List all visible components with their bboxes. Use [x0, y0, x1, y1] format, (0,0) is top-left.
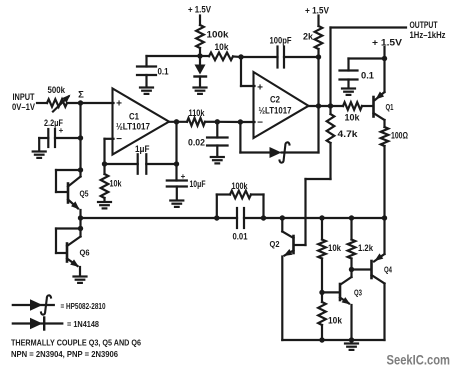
- node C1 output: [174, 119, 179, 124]
- ground (0.1 Q1): [342, 89, 355, 95]
- node 2.2uF tap: [78, 135, 83, 140]
- op-amp C2 1/2 LT1017: [254, 72, 309, 138]
- +1.5V supply label (2k): [305, 6, 329, 16]
- resistor 4.7k: [327, 106, 359, 179]
- transistor Q1 (PNP 2N3906): [374, 59, 394, 121]
- node C2 - input: [238, 119, 243, 124]
- transistor Q2 (NPN 2N3904): [270, 218, 294, 340]
- wire 100k to node: [199, 48, 201, 56]
- node rail/100ohm/Q4: [382, 215, 387, 220]
- transistor Q6 (NPN diode-connected): [56, 229, 90, 277]
- node rail/1.2k: [349, 215, 354, 220]
- transistor Q4 (PNP 2N3906): [372, 218, 393, 340]
- resistor 2k (output pull-up): [303, 26, 322, 49]
- ground (Q6 emitter): [74, 277, 87, 283]
- ground (bottom rail): [345, 344, 358, 350]
- node rail/100k right: [261, 215, 266, 220]
- transistor Q5 (NPN diode-connected): [56, 170, 89, 218]
- ground (2.2uF): [33, 152, 46, 158]
- diode 1N4148 (clamp to ground): [195, 56, 207, 87]
- node rail/10k-Q3: [319, 215, 324, 220]
- svg-text:1μF: 1μF: [135, 144, 150, 154]
- svg-text:−: −: [257, 118, 263, 129]
- node 110k/0.02: [215, 119, 220, 124]
- wire rail to 10k: [321, 218, 323, 240]
- node 1uF/10k at C1 -: [102, 161, 107, 166]
- resistor 10k (lower, Q3 base to rail): [318, 292, 343, 340]
- node 2k / 100pF / C2 output junction: [316, 54, 321, 59]
- svg-text:½LT1017: ½LT1017: [259, 106, 292, 116]
- wire bottom rail: [282, 339, 384, 341]
- svg-text:+: +: [116, 99, 122, 110]
- resistor 10k (Q3 base feed): [318, 240, 342, 259]
- svg-text:SeekIC.com: SeekIC.com: [387, 352, 451, 368]
- node summing junction: [78, 100, 83, 105]
- ground (diode): [194, 88, 207, 94]
- svg-text:110k: 110k: [189, 108, 206, 118]
- svg-text:Σ: Σ: [78, 90, 84, 101]
- resistor 100k (pull-up to summing node): [196, 25, 229, 48]
- wire input: [37, 102, 47, 104]
- resistor 1.2k: [348, 218, 374, 270]
- svg-text:Q2: Q2: [270, 239, 280, 249]
- wire summing node to C1 +: [81, 102, 114, 104]
- svg-text:0V–1V: 0V–1V: [12, 102, 35, 112]
- capacitor 0.01 (in rail): [233, 208, 248, 242]
- wire to C2 - input: [217, 121, 254, 123]
- capacitor 0.1 (Q1 supply bypass): [340, 71, 375, 89]
- note transistor types: [11, 349, 118, 359]
- wire main rail (left of 0.01): [81, 217, 238, 219]
- svg-text:0.01: 0.01: [233, 232, 248, 242]
- node rail/Q5-Q6: [78, 215, 83, 220]
- wire Q3 base: [322, 291, 339, 293]
- wire +1.5V to 100k: [199, 16, 201, 26]
- svg-text:+ 1.5V: + 1.5V: [188, 5, 211, 15]
- node rail/100k left: [214, 215, 219, 220]
- wire node down to C2 output: [317, 57, 319, 106]
- node bottom rail/10k: [319, 337, 324, 342]
- svg-text:0.1: 0.1: [158, 67, 169, 77]
- wire 10k to base node: [321, 259, 323, 293]
- node rail/Q2: [280, 215, 285, 220]
- node output/2k branch: [316, 103, 321, 108]
- svg-text:2k: 2k: [303, 32, 314, 42]
- variable resistor 500k (input): [47, 85, 81, 112]
- capacitor 0.1 (left bypass): [137, 67, 169, 88]
- svg-text:−: −: [116, 134, 122, 145]
- wire input vertical: [79, 103, 81, 170]
- svg-text:500k: 500k: [48, 85, 66, 95]
- ground (10uF): [170, 201, 183, 207]
- svg-text:100Ω: 100Ω: [391, 131, 408, 141]
- op-amp C1 1/2 LT1017: [113, 89, 170, 155]
- wire C2 output row: [309, 105, 344, 107]
- capacitor 10uF (polarized): [167, 164, 206, 200]
- ground (10k C1): [98, 202, 111, 208]
- node bottom rail/ground: [349, 337, 354, 342]
- svg-text:100k: 100k: [232, 181, 249, 191]
- svg-text:Q1: Q1: [386, 102, 394, 112]
- resistor 10k (C2 out to Q1 base): [343, 102, 373, 122]
- svg-text:4.7k: 4.7k: [338, 129, 359, 139]
- wire 100pF to 2k node: [284, 56, 319, 58]
- node Q6 collector tie: [78, 226, 83, 231]
- wire 100ohm to rail: [383, 146, 385, 218]
- capacitor 0.02: [188, 122, 228, 157]
- wire +1.5V to 2k: [317, 16, 319, 27]
- capacitor 100pF (positive feedback): [270, 36, 292, 68]
- svg-text:C2: C2: [270, 95, 280, 105]
- node +1.5V / 0.1 junction: [382, 56, 387, 61]
- resistor 110k: [187, 108, 217, 126]
- ground (0.1 cap): [140, 88, 153, 94]
- svg-text:+: +: [257, 83, 263, 94]
- svg-text:10μF: 10μF: [190, 179, 206, 189]
- wire 2k to node: [317, 49, 319, 57]
- node Q3 base: [319, 290, 324, 295]
- node Q5 collector tie: [78, 167, 83, 172]
- legend diode 1N4148: [13, 318, 100, 330]
- svg-text:10k: 10k: [110, 179, 123, 189]
- wire OUTPUT vertical: [329, 28, 331, 107]
- node C2 + input branch: [238, 54, 243, 59]
- svg-text:Q5: Q5: [80, 189, 89, 199]
- capacitor 1uF (C1 integrator feedback): [105, 122, 177, 174]
- svg-text:Q3: Q3: [354, 288, 362, 298]
- wire 4.7k to Q2 base: [295, 179, 331, 245]
- watermark SeekIC.com: [387, 352, 451, 368]
- wire Q3 collector to Q4 base: [352, 268, 371, 270]
- ground (0.02): [211, 157, 224, 163]
- svg-text:0.02: 0.02: [188, 138, 205, 148]
- OUTPUT label: [410, 20, 446, 40]
- svg-text:= HP5082-2810: = HP5082-2810: [61, 302, 106, 311]
- svg-text:+ 1.5V: + 1.5V: [372, 38, 402, 48]
- svg-text:10k: 10k: [345, 113, 361, 123]
- svg-text:THERMALLY COUPLE Q3, Q5 AND Q6: THERMALLY COUPLE Q3, Q5 AND Q6: [11, 338, 141, 348]
- svg-text:= 1N4148: = 1N4148: [67, 320, 100, 329]
- resistor 10k (C1 - to ground): [101, 174, 123, 202]
- node output/4.7k branch: [328, 103, 333, 108]
- wire to 100pF: [241, 56, 278, 58]
- resistor 10k (node to 100pF row): [200, 42, 241, 60]
- svg-text:10k: 10k: [328, 316, 343, 326]
- svg-text:10k: 10k: [328, 243, 342, 253]
- svg-text:NPN = 2N3904, PNP = 2N3906: NPN = 2N3904, PNP = 2N3906: [11, 349, 118, 359]
- +1.5V supply label (Q1): [372, 38, 402, 48]
- node 1.2k/Q3 collector/Q4 base: [349, 267, 354, 272]
- svg-text:½LT1017: ½LT1017: [116, 122, 150, 132]
- wire +1.5V to node: [383, 47, 385, 59]
- capacitor 2.2uF (input, polarized): [39, 118, 80, 151]
- wire C1 - input: [105, 139, 114, 174]
- diode HP5082-2810 (C2 feedback): [240, 106, 318, 163]
- svg-text:INPUT: INPUT: [13, 92, 35, 102]
- svg-text:+ 1.5V: + 1.5V: [305, 6, 329, 16]
- wire C2 + input: [241, 57, 255, 86]
- svg-text:2.2μF: 2.2μF: [44, 118, 63, 128]
- svg-text:100k: 100k: [207, 30, 230, 40]
- wire Q5 emitter to Q6: [79, 218, 81, 229]
- node 100k/10k/diode/0.1 junction: [197, 53, 202, 58]
- svg-text:Q4: Q4: [384, 265, 392, 275]
- svg-text:OUTPUT: OUTPUT: [410, 20, 438, 30]
- legend diode HP5082-2810: [13, 295, 106, 314]
- svg-text:0.1: 0.1: [361, 71, 374, 81]
- note thermally couple: [11, 338, 141, 348]
- svg-text:100pF: 100pF: [270, 36, 292, 46]
- svg-text:C1: C1: [129, 112, 139, 122]
- wire node to 0.1 cap: [147, 56, 201, 67]
- wire C1 output: [169, 121, 187, 123]
- wire main rail (right of 0.01): [244, 217, 385, 219]
- svg-text:1Hz–1kHz: 1Hz–1kHz: [410, 30, 446, 40]
- resistor 100 ohm: [381, 127, 408, 146]
- wire Q1 collector to 100ohm: [383, 120, 385, 127]
- node 1uF/output: [174, 161, 179, 166]
- transistor Q3 (NPN 2N3904): [340, 270, 362, 341]
- svg-text:10k: 10k: [215, 42, 230, 52]
- summing node label: [78, 90, 84, 101]
- svg-text:Q6: Q6: [80, 248, 90, 258]
- wire node to 0.1 cap: [349, 59, 385, 71]
- INPUT label: [12, 92, 35, 112]
- wire OUTPUT horizontal: [331, 26, 407, 28]
- +1.5V supply label (100k pull-up): [188, 5, 211, 15]
- resistor 100k (parallel bypass): [217, 181, 264, 218]
- svg-text:1.2k: 1.2k: [358, 243, 374, 253]
